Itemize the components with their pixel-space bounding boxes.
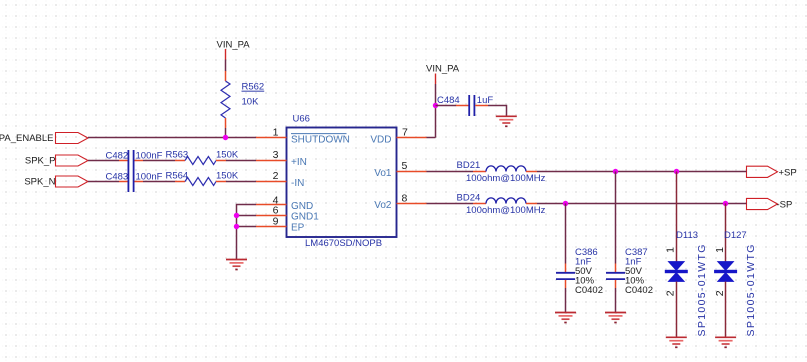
junction C484 tap (433, 103, 438, 108)
pin 3 (256, 149, 287, 161)
wire C387 to ground (615, 288, 617, 313)
wire C482 to R563 (143, 160, 175, 162)
junction C387 on Vo1 (613, 169, 618, 174)
svg-text:2: 2 (714, 290, 726, 296)
resistor R563 (166, 150, 239, 165)
wire C387 drop (615, 172, 617, 264)
wire C386 to ground (565, 288, 567, 313)
svg-text:SHUTDOWN: SHUTDOWN (291, 135, 350, 146)
junction D113 on Vo1 (674, 169, 679, 174)
svg-text:+IN: +IN (291, 157, 307, 168)
svg-text:PA_ENABLE: PA_ENABLE (0, 133, 54, 144)
svg-text:8: 8 (402, 192, 408, 204)
port PA_ENABLE (0, 133, 88, 145)
power symbol VIN_PA (left) (217, 39, 251, 59)
capacitor C484 (437, 95, 493, 116)
junction C386 on Vo2 (563, 201, 568, 206)
ground G6 (715, 337, 736, 347)
capacitor C483 (106, 171, 163, 192)
junction PA_ENABLE/R562 (223, 135, 228, 140)
port -SP output (747, 198, 793, 210)
svg-text:VIN_PA: VIN_PA (217, 39, 251, 50)
svg-text:LM4670SD/NOPB: LM4670SD/NOPB (305, 238, 382, 249)
svg-text:U66: U66 (293, 113, 310, 124)
wire EP pin 9 (237, 226, 257, 228)
wire Vo1 pin 5 to BD21 (427, 171, 474, 173)
capacitor C387 (606, 247, 653, 296)
wire R563 to pin 3 (226, 160, 256, 162)
wire Vo1 net to +SP (537, 171, 747, 173)
wire Vo2 net to -SP (537, 203, 747, 205)
svg-text:C0402: C0402 (575, 285, 603, 296)
port +SP output (747, 166, 797, 178)
svg-text:GND1: GND1 (291, 211, 319, 222)
diode D127 (714, 230, 757, 336)
svg-text:R563: R563 (166, 150, 189, 161)
wire D113 drop (676, 172, 678, 263)
wire VIN_PA to R562 (225, 60, 227, 72)
wire R562 to PA_ENABLE net (225, 128, 227, 138)
ground G5 (666, 337, 687, 347)
svg-text:Vo1: Vo1 (374, 168, 392, 179)
svg-text:R562: R562 (242, 82, 265, 93)
svg-text:2: 2 (273, 170, 279, 182)
svg-text:1: 1 (273, 126, 279, 138)
svg-text:5: 5 (402, 160, 408, 172)
wire D127 to ground (725, 282, 727, 338)
capacitor C386 (556, 247, 603, 296)
wire PA_ENABLE net (88, 137, 256, 139)
wire Vo2 pin 8 to BD24 (427, 203, 474, 205)
wire VDD pin 7 to vertical (427, 137, 436, 139)
svg-text:10K: 10K (242, 96, 260, 107)
svg-text:C484: C484 (437, 95, 460, 106)
svg-text:C482: C482 (106, 150, 129, 161)
svg-text:+SP: +SP (779, 167, 797, 178)
svg-text:BD24: BD24 (457, 193, 481, 204)
op-amp U66 LM4670SD/NOPB (287, 113, 397, 249)
pin 4 (256, 194, 287, 206)
svg-text:100nF: 100nF (136, 171, 163, 182)
ground G4 (605, 313, 626, 323)
pin 6 (256, 205, 287, 217)
port SPK_P (25, 155, 88, 166)
svg-text:100nF: 100nF (136, 150, 163, 161)
svg-text:1: 1 (665, 247, 677, 253)
ground G3 (555, 313, 576, 323)
svg-text:100ohm@100MHz: 100ohm@100MHz (466, 205, 546, 216)
wire D127 drop (725, 204, 727, 263)
svg-text:D127: D127 (724, 230, 747, 241)
wire C483 to R564 (143, 181, 175, 183)
svg-text:-IN: -IN (291, 178, 304, 189)
svg-text:EP: EP (291, 222, 305, 233)
inductor BD21 (457, 160, 546, 184)
power symbol VIN_PA (right) (426, 63, 460, 84)
svg-text:-SP: -SP (777, 200, 793, 211)
svg-text:R564: R564 (166, 171, 189, 182)
pin 2 (256, 170, 287, 182)
wire GND pin 4 (237, 205, 257, 260)
junction D127 on Vo2 (723, 201, 728, 206)
svg-text:SPK_N: SPK_N (24, 177, 55, 188)
svg-text:7: 7 (402, 126, 408, 138)
pin 7 (397, 126, 427, 138)
svg-text:SP1005-01WTG: SP1005-01WTG (696, 243, 708, 336)
wire SPK_P to C482 (88, 160, 119, 162)
svg-text:SPK_P: SPK_P (25, 155, 56, 166)
svg-text:1: 1 (714, 247, 726, 253)
wire SPK_N to C483 (88, 181, 119, 183)
svg-text:C483: C483 (106, 171, 129, 182)
wire D113 to ground (676, 282, 678, 338)
resistor R562 (221, 71, 264, 128)
port SPK_N (24, 176, 88, 188)
svg-text:SP1005-01WTG: SP1005-01WTG (745, 243, 757, 336)
svg-text:VDD: VDD (370, 135, 391, 146)
svg-text:BD21: BD21 (457, 160, 481, 171)
svg-text:3: 3 (273, 149, 279, 161)
wire R564 to pin 2 (226, 181, 256, 183)
svg-text:C0402: C0402 (625, 285, 653, 296)
pin 9 (256, 216, 287, 228)
diode D113 (665, 230, 708, 336)
capacitor C482 (106, 150, 163, 171)
svg-text:Vo2: Vo2 (374, 200, 392, 211)
svg-text:1uF: 1uF (477, 95, 494, 106)
inductor BD24 (457, 193, 546, 217)
svg-text:VIN_PA: VIN_PA (426, 63, 460, 74)
pin 8 (397, 192, 427, 204)
junction GND1 (234, 213, 239, 218)
resistor R564 (166, 171, 239, 186)
ground G2 (496, 116, 517, 126)
svg-text:2: 2 (665, 290, 677, 296)
wire GND1 pin 6 (237, 215, 257, 217)
svg-text:150K: 150K (216, 150, 239, 161)
pin 5 (397, 160, 427, 172)
wire VIN_PA down to VDD (435, 84, 437, 138)
svg-text:100ohm@100MHz: 100ohm@100MHz (466, 173, 546, 184)
svg-text:D113: D113 (676, 230, 698, 241)
junction EP (234, 224, 239, 229)
wire C386 drop (565, 204, 567, 264)
ground G1 (226, 260, 247, 270)
wire C484 to ground (488, 106, 507, 117)
wire junction to C484 (436, 105, 457, 107)
pin 1 (256, 126, 287, 138)
svg-text:150K: 150K (216, 171, 239, 182)
